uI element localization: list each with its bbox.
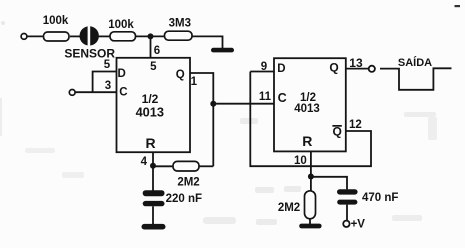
capacitor 220 nF: [143, 190, 165, 206]
resistor 2M2 (vertical): [305, 191, 316, 219]
capacitor 470 nF: [337, 189, 358, 204]
resistor 2M2 (horizontal): [173, 161, 199, 171]
svg-text:C: C: [278, 91, 287, 105]
wire R pin down to RC node: [152, 152, 154, 190]
svg-text:100k: 100k: [43, 15, 69, 27]
flip-flop U1 1/2 4013: [117, 58, 191, 152]
output waveform symbol: [380, 68, 452, 90]
junction node (100k/3M3/pin6): [148, 33, 154, 39]
svg-text:D: D: [118, 68, 126, 80]
ground (220 nF): [142, 224, 166, 230]
wire node to 470 nF: [311, 177, 347, 190]
label 1/2 4013 (U2): [294, 92, 320, 115]
svg-text:5: 5: [150, 61, 157, 73]
junction node (R2 RC): [308, 174, 314, 180]
pin letter Q-bar (U2): [332, 125, 341, 139]
junction node (R1 RC): [150, 163, 156, 169]
flip-flop U2 1/2 4013: [274, 58, 346, 151]
sensor (photo sensor symbol): [80, 26, 99, 47]
svg-text:1: 1: [191, 76, 198, 88]
svg-text:5: 5: [104, 59, 111, 71]
svg-text:4: 4: [141, 156, 148, 168]
svg-text:+V: +V: [351, 219, 366, 231]
ground (2M2 vertical): [309, 219, 311, 225]
junction node (Q1 to clock2): [210, 101, 216, 107]
output terminal: [369, 66, 375, 72]
wire node to pin 6 (set) of U1: [150, 36, 152, 57]
scan noise: [0, 21, 437, 225]
wire R2 pin down through cross to RC node: [310, 151, 312, 190]
resistor 100k (second): [110, 32, 136, 41]
wire Q1 out right then down to R network: [190, 73, 213, 166]
svg-text:2M2: 2M2: [177, 177, 199, 189]
svg-text:R: R: [302, 133, 312, 149]
wire terminal to R 100k: [27, 35, 43, 37]
wire R 100k to sensor: [70, 35, 80, 37]
wire D2 pin out left: [250, 71, 274, 73]
wire sensor to R 100k second: [99, 35, 110, 37]
wire 2M2 to Q1 vertical: [199, 165, 213, 167]
svg-text:220 nF: 220 nF: [166, 193, 202, 205]
wire 3M3 to ground: [192, 36, 223, 48]
scan artifact dash top right: [455, 5, 461, 7]
wire 470 nF to +V terminal: [346, 205, 348, 221]
wire node to 2M2 resistor: [153, 165, 173, 167]
wire Q1 node to pin 11 clock of U2: [213, 103, 274, 105]
svg-text:3M3: 3M3: [169, 17, 191, 29]
svg-text:4013: 4013: [294, 103, 320, 115]
svg-text:6: 6: [154, 45, 160, 57]
wire clock terminal to C pin: [75, 91, 116, 93]
svg-text:R: R: [146, 135, 156, 151]
svg-text:2M2: 2M2: [278, 202, 300, 214]
wire R 100k to R 3M3 through node: [136, 35, 165, 37]
resistor 3M3: [165, 31, 193, 40]
svg-text:Q: Q: [329, 60, 338, 74]
svg-text:470 nF: 470 nF: [362, 192, 398, 204]
svg-text:D: D: [277, 63, 285, 75]
clock input terminal: [69, 90, 75, 96]
wire capacitor to ground: [152, 206, 154, 224]
svg-text:3: 3: [105, 80, 111, 92]
wire D pin loop to clock line: [93, 72, 117, 93]
label 1/2 4013 (U1): [136, 92, 164, 120]
svg-text:Q: Q: [176, 69, 185, 81]
resistor 100k (first): [44, 32, 70, 41]
svg-text:100k: 100k: [108, 19, 134, 31]
svg-text:12: 12: [349, 119, 362, 131]
svg-text:4013: 4013: [136, 104, 164, 119]
svg-text:10: 10: [294, 155, 307, 167]
input terminal (left, sensor chain): [21, 34, 27, 40]
svg-text:11: 11: [259, 91, 272, 103]
wire D2 loop to Q-bar (toggle connection): [250, 72, 371, 167]
svg-text:SAÍDA: SAÍDA: [398, 56, 432, 69]
svg-text:C: C: [119, 86, 127, 98]
ground (3M3): [211, 48, 234, 53]
+V terminal: [343, 221, 349, 227]
wire Q2 to output terminal: [346, 68, 369, 70]
